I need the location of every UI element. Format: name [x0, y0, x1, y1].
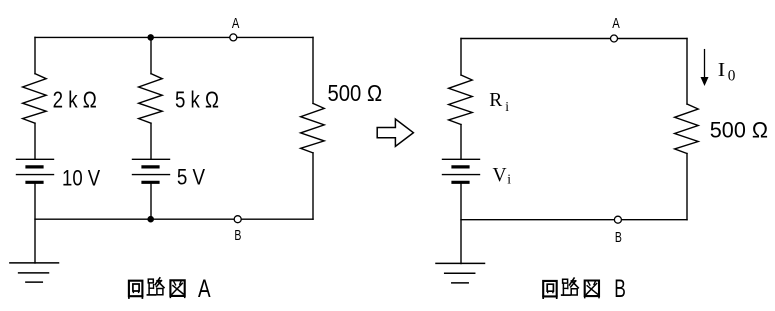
svg-text:I: I [718, 59, 726, 81]
svg-text:B: B [615, 230, 622, 246]
svg-text:500 Ω: 500 Ω [328, 80, 383, 106]
svg-text:10 V: 10 V [62, 165, 100, 190]
svg-text:5 V: 5 V [177, 164, 205, 189]
svg-text:500 Ω: 500 Ω [710, 118, 768, 143]
svg-text:R: R [489, 90, 502, 111]
svg-text:i: i [505, 99, 509, 114]
svg-text:A: A [198, 275, 211, 303]
svg-text:B: B [234, 228, 241, 244]
svg-text:5 k Ω: 5 k Ω [175, 87, 219, 113]
svg-text:i: i [507, 172, 511, 187]
svg-text:A: A [612, 16, 620, 32]
svg-text:2 k Ω: 2 k Ω [53, 87, 97, 113]
svg-text:0: 0 [728, 68, 736, 85]
svg-text:A: A [232, 16, 240, 32]
svg-text:B: B [614, 275, 626, 303]
svg-text:V: V [493, 165, 507, 186]
